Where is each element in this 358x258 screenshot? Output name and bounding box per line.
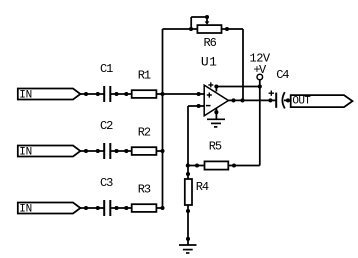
node dot op-amp plus input [197, 92, 201, 96]
svg-text:IN: IN [19, 89, 31, 101]
wire C4 to OUT [284, 99, 291, 101]
node dot op-amp V+ pin [214, 84, 218, 88]
resistor R4 [185, 179, 192, 205]
op-amp plus input glyph [207, 93, 212, 98]
node dot op-amp minus input [197, 104, 201, 108]
node dot R5 right [232, 163, 236, 167]
node dot above ground [186, 237, 190, 241]
svg-text:IN: IN [19, 146, 31, 158]
capacitor C1 [104, 86, 110, 102]
wire 12V rail down to R5 [259, 87, 261, 166]
power terminal circle 12V [257, 74, 263, 80]
svg-text:R5: R5 [209, 140, 222, 154]
svg-text:C4: C4 [276, 68, 289, 82]
svg-text:C3: C3 [100, 176, 113, 190]
node dot op-amp ground pin [214, 110, 218, 114]
ground under op-amp [207, 119, 225, 127]
wire 12V circle down [259, 80, 261, 87]
svg-text:IN: IN [19, 203, 31, 215]
node dot R5 left b [195, 163, 199, 167]
wire feedback vertical down to output [242, 29, 244, 100]
node dot row1 d [124, 92, 128, 96]
svg-text:C2: C2 [100, 119, 113, 133]
node dot R6 right [225, 27, 229, 31]
R6 wiper arrow [206, 17, 208, 22]
node dot row2 c [114, 149, 118, 153]
op-amp V+ pin stub [215, 87, 217, 92]
node dot row2 bus junction [160, 149, 164, 153]
node dot R5 left junction [186, 163, 190, 167]
node dot row1 a [84, 92, 88, 96]
svg-text:R2: R2 [138, 126, 151, 140]
wire row2 from C2 to R2 [111, 150, 132, 152]
node dot output at apex [231, 98, 235, 102]
capacitor C4 straight plate [275, 93, 277, 108]
resistor R3 [132, 204, 157, 212]
op-amp U1 [204, 85, 228, 116]
wire V+ pin to 12V rail [216, 86, 259, 88]
port IN2 [18, 146, 81, 157]
node dot row1 c [114, 92, 118, 96]
node dot R4 top [186, 172, 190, 176]
node dot row3 bus junction [160, 206, 164, 210]
potentiometer R6 body [197, 25, 221, 33]
node dot row2 b [96, 149, 100, 153]
svg-text:C1: C1 [100, 62, 113, 76]
resistor R2 [132, 147, 157, 155]
wire row3 from IN3 to C3 [80, 207, 103, 209]
wire row1 from C1 to R1 [111, 93, 132, 95]
node dot R6 wiper top [205, 15, 209, 19]
wire R4 bottom to ground [187, 205, 189, 245]
svg-text:OUT: OUT [292, 96, 311, 108]
wire row3 from C3 to R3 [111, 207, 132, 209]
svg-text:U1: U1 [201, 55, 217, 70]
node dot row3 d [124, 206, 128, 210]
op-amp minus input glyph [206, 105, 211, 107]
wire row3 from R3 to bus [156, 207, 162, 209]
capacitor C3 [104, 200, 110, 216]
wire wiper loop vertical [190, 17, 192, 29]
wire row2 from IN2 to C2 [80, 150, 103, 152]
node dot R6 left [189, 27, 193, 31]
node dot row3 b [96, 206, 100, 210]
wire row2 from R2 to bus [156, 150, 162, 152]
wire op-amp output [228, 99, 275, 101]
node dot output feedback junction [240, 98, 244, 102]
wire op-amp minus input [188, 105, 204, 107]
node dot row1 b [96, 92, 100, 96]
capacitor C4 plus glyph [269, 91, 274, 96]
wire minus input vertical down [187, 106, 189, 179]
node dot R4 bottom [186, 209, 190, 213]
wire R5 right [228, 165, 259, 167]
wire summing bus vertical [162, 29, 164, 208]
wire wiper loop horizontal [191, 16, 207, 18]
capacitor C4 curved plate [282, 92, 284, 108]
wire top feedback horizontal to R6 [163, 28, 198, 30]
svg-text:R4: R4 [196, 180, 209, 194]
svg-text:R6: R6 [204, 36, 217, 50]
wire row1 from R1 to op-amp [156, 93, 204, 95]
node dot at OUT [286, 98, 290, 102]
node A summing junction row1 [160, 92, 164, 96]
svg-text:R3: R3 [138, 183, 151, 197]
wire R6 right to corner [222, 28, 244, 30]
node dot before C4 [268, 98, 272, 102]
node dot row2 a [84, 149, 88, 153]
node dot row2 d [124, 149, 128, 153]
ground bottom [179, 245, 197, 253]
node dot 12V rail [258, 84, 262, 88]
wire R5 left [188, 165, 205, 167]
resistor R5 [205, 161, 229, 169]
capacitor C2 [104, 143, 110, 159]
resistor R1 [132, 90, 157, 98]
node dot row3 c [114, 206, 118, 210]
wire row1 from IN1 to C1 [80, 93, 103, 95]
op-amp ground pin stub [215, 108, 217, 119]
op-amp power plus glyph [208, 82, 213, 87]
node dot row3 a [84, 206, 88, 210]
port IN1 [18, 89, 81, 100]
port OUT [291, 95, 353, 107]
svg-text:R1: R1 [138, 69, 151, 83]
port IN3 [18, 203, 81, 214]
